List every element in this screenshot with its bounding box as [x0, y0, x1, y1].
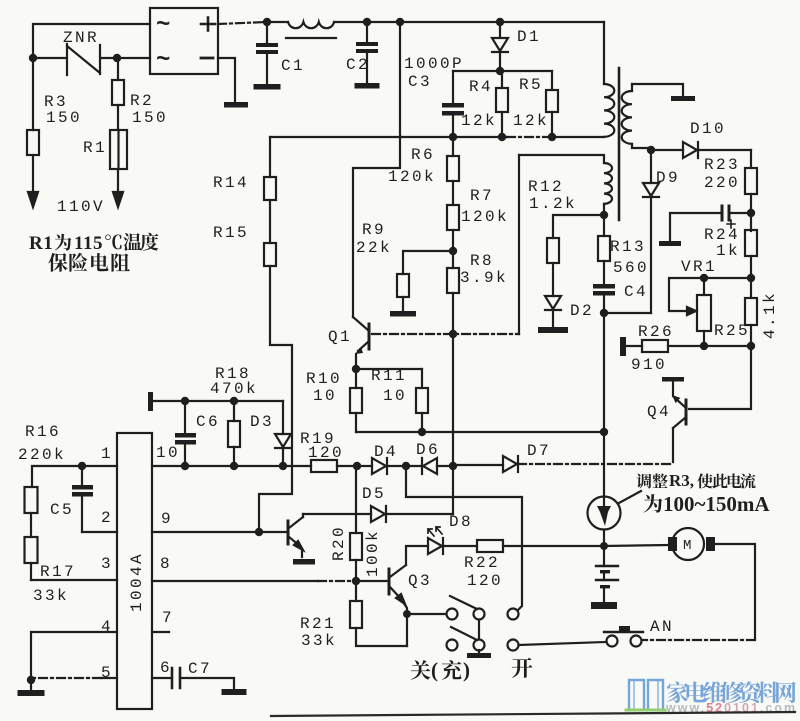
label D4 [374, 443, 398, 461]
motor M [668, 528, 715, 560]
resistor R4k1 [745, 298, 757, 346]
value 33k [33, 587, 69, 605]
svg-text:C1: C1 [281, 57, 305, 75]
label R14 [213, 174, 249, 192]
switch S1b contact L [447, 640, 458, 651]
wire node to D9 column [604, 312, 651, 314]
label bridge - [201, 57, 213, 60]
terminal bar S1b [467, 650, 491, 658]
svg-text:VR1: VR1 [681, 258, 717, 276]
pin 3 [101, 555, 113, 573]
node C1 top [263, 18, 271, 26]
value 22k [356, 239, 392, 257]
svg-text:1: 1 [101, 445, 113, 463]
label R22 [464, 554, 500, 572]
svg-text:C3: C3 [408, 73, 432, 91]
IC U1 1004A [117, 433, 152, 709]
node C6 bottom [181, 462, 189, 470]
svg-text:Q3: Q3 [408, 572, 432, 590]
wire y432 to meter branch [356, 431, 604, 433]
capacitor C4 [593, 284, 615, 313]
wire rail y137 left [270, 136, 401, 138]
battery BT1 [596, 546, 618, 602]
resistor R14 [264, 137, 276, 243]
capacitor C6 [175, 401, 196, 466]
node R18 bottom [230, 462, 238, 470]
node R23 bottom [747, 209, 755, 217]
wire Q1 base (dash-dot) [372, 333, 519, 335]
label C3 [408, 73, 432, 91]
transistor Q2 [288, 514, 303, 557]
resistor R23 [745, 150, 757, 231]
node rail-x401 [396, 18, 404, 26]
wire bridge minus out [218, 58, 235, 102]
label bridge + [201, 18, 215, 31]
label R2 [130, 92, 154, 110]
transformer secondary winding [622, 84, 695, 148]
svg-text:910: 910 [631, 356, 667, 374]
diode D2 [545, 296, 561, 327]
label R5 [519, 76, 543, 94]
svg-text:22k: 22k [356, 239, 392, 257]
label R9 [362, 221, 386, 239]
svg-text:R12: R12 [528, 178, 564, 196]
value 910 [631, 356, 667, 374]
svg-text:120: 120 [467, 572, 503, 590]
annotation R1 thermal fuse line2 [48, 253, 130, 272]
node R4 bottom [498, 133, 506, 141]
label C6 [196, 413, 220, 431]
label ZNR [63, 29, 99, 47]
ground R9 [390, 311, 416, 317]
label bridge ~ top [156, 12, 170, 39]
watermark site name [667, 681, 796, 703]
value 1000P [404, 55, 464, 73]
wire y71 [453, 70, 552, 72]
node Q2 base [255, 528, 263, 536]
value 1k [716, 242, 740, 260]
arrow to 110V line N [113, 192, 123, 207]
value 12k [461, 112, 497, 130]
label R7 [470, 187, 494, 205]
svg-text:9: 9 [161, 510, 173, 528]
svg-text:33k: 33k [33, 587, 69, 605]
watermark url [665, 701, 797, 715]
capacitor C2 [356, 22, 378, 83]
diode D6 [406, 458, 453, 474]
svg-text:C2: C2 [346, 56, 370, 74]
varistor ZNR [33, 44, 117, 75]
svg-text:3.9k: 3.9k [460, 269, 508, 287]
node battery top [600, 542, 608, 550]
value 100k (rotated) [364, 529, 382, 577]
label 开 [512, 658, 533, 678]
capacitor C7 [172, 668, 234, 689]
value 120k [461, 208, 509, 226]
leader line [619, 491, 641, 503]
ground bridge [224, 102, 248, 108]
svg-text:R13: R13 [610, 238, 646, 256]
svg-text:D4: D4 [374, 443, 398, 461]
label R10 [306, 370, 342, 388]
resistor R15 [259, 243, 292, 531]
wire emitter split [356, 368, 422, 370]
resistor R24 [745, 230, 757, 298]
resistor R5 [546, 71, 558, 137]
svg-text:R20: R20 [330, 525, 348, 561]
ground D2 [538, 327, 568, 333]
node under D1 [496, 67, 504, 75]
label R8 [470, 252, 494, 270]
value 1.2k [529, 195, 577, 213]
fuse-resistor R1 [110, 130, 127, 192]
wire pin10 rail [152, 465, 311, 467]
node Q3 emitter [403, 610, 411, 618]
svg-text:R22: R22 [464, 554, 500, 572]
svg-text:D2: D2 [570, 302, 594, 320]
value 120 [467, 572, 503, 590]
wire to R12 [553, 215, 604, 238]
svg-text:R26: R26 [638, 323, 674, 341]
label C2 [346, 56, 370, 74]
svg-text:120k: 120k [461, 208, 509, 226]
svg-text:150: 150 [46, 109, 82, 127]
switch S1a arm [450, 596, 477, 609]
svg-text:3: 3 [101, 555, 113, 573]
node R24 bottom [747, 274, 755, 282]
label D10 [690, 120, 726, 138]
svg-text:120: 120 [308, 444, 344, 462]
value 12k [513, 112, 549, 130]
node R18 top [230, 397, 238, 405]
wire meter to node [603, 530, 605, 546]
resistor R20 [350, 466, 362, 581]
node 4k1 bottom [747, 342, 755, 350]
pin 9 [161, 510, 173, 528]
node R8 bottom [449, 330, 457, 338]
node pin8-R20 [352, 577, 360, 585]
label Q3 [408, 572, 432, 590]
svg-text:5: 5 [101, 664, 113, 682]
switch S2 contact bottom [508, 640, 519, 651]
node pin4-5 gnd [27, 676, 35, 684]
svg-text:7: 7 [162, 609, 174, 627]
node R25 top [700, 274, 708, 282]
svg-text:ZNR: ZNR [63, 29, 99, 47]
annotation adjust R3 line1 [636, 471, 755, 490]
wire to bridge [117, 57, 150, 59]
label Q4 [647, 403, 671, 421]
svg-text:560: 560 [613, 259, 649, 277]
wire bridge plus out (dash-dot) [218, 22, 267, 24]
label C5 [50, 501, 74, 519]
svg-text:R5: R5 [519, 76, 543, 94]
value 150 [46, 109, 82, 127]
ground C1 [254, 84, 281, 90]
svg-text:~: ~ [156, 12, 170, 39]
label D2 [570, 302, 594, 320]
value 4.1k (rotated) [761, 291, 779, 339]
ground Q2 [293, 559, 315, 565]
wire feedback bottom [603, 204, 605, 215]
svg-text:R3,: R3, [669, 471, 694, 490]
svg-text:10: 10 [156, 444, 180, 462]
value 10 [383, 387, 407, 405]
meter circle [588, 497, 621, 530]
node meter top [600, 428, 608, 436]
transistor Q1 [353, 317, 369, 369]
svg-text:R11: R11 [371, 367, 407, 385]
svg-text:R1: R1 [29, 233, 53, 254]
capacitor C8 coupling [670, 206, 751, 241]
resistor R11 [416, 369, 428, 432]
resistor R21 [350, 581, 407, 646]
value 470k [210, 380, 258, 398]
label R21 [300, 615, 336, 633]
resistor R16 [25, 487, 38, 537]
svg-text:8: 8 [160, 555, 172, 573]
transistor Q4 [662, 377, 686, 462]
svg-text:R6: R6 [411, 146, 435, 164]
svg-text:115: 115 [74, 233, 103, 254]
node C3 bottom [449, 133, 457, 141]
wire S2 to AN [519, 642, 606, 645]
transistor Q3 [389, 546, 428, 614]
wire primary top [603, 22, 605, 84]
node C2 top [363, 18, 371, 26]
svg-text:12k: 12k [513, 112, 549, 130]
wire node to motor [604, 545, 668, 546]
label D5 [362, 485, 386, 503]
pin 7 [162, 609, 174, 627]
label VR1 [681, 258, 717, 276]
label R25 [714, 322, 750, 340]
wire D5 node to S2 [406, 466, 522, 610]
switch S2 contact top [508, 609, 519, 620]
node D4 anode [353, 462, 361, 470]
svg-text:(: ( [431, 658, 438, 682]
transformer core [618, 68, 621, 220]
label C4 [624, 283, 648, 301]
node D6-D7 [449, 462, 457, 470]
node C4 bottom [600, 309, 608, 317]
svg-text:R9: R9 [362, 221, 386, 239]
svg-text:Q4: Q4 [647, 403, 671, 421]
wire pin9 [152, 531, 288, 533]
wire base Q3 [356, 580, 389, 582]
label R20 (rotated) [330, 525, 348, 561]
wire VR1 wiper feed [669, 278, 751, 311]
value 560 [613, 259, 649, 277]
arrow VR1 wiper [687, 307, 696, 315]
switch S1b contact R [474, 640, 485, 651]
diode D7 [453, 456, 673, 472]
label D1 [517, 28, 541, 46]
svg-text:2: 2 [101, 509, 113, 527]
svg-text:): ) [463, 658, 470, 682]
wire top rail left [267, 21, 288, 23]
label R11 [371, 367, 407, 385]
svg-text:120k: 120k [388, 168, 436, 186]
node feedback out [600, 211, 608, 219]
value 220 [704, 174, 740, 192]
label D3 [250, 413, 274, 431]
value 120k [388, 168, 436, 186]
wire pin5 (dash-dot) [34, 677, 117, 679]
filter choke L1 [286, 22, 336, 38]
wire down-left to R21 [406, 614, 408, 646]
diode D3 [275, 401, 291, 466]
label C1 [281, 57, 305, 75]
label R19 [300, 430, 336, 448]
wire pin2 [82, 531, 117, 533]
resistor R3 [27, 58, 39, 194]
diode D5 [303, 506, 453, 522]
svg-text:1.2k: 1.2k [529, 195, 577, 213]
pin 5 [101, 664, 113, 682]
pin 8 [160, 555, 172, 573]
resistor R8 [447, 268, 459, 514]
svg-text:R17: R17 [40, 563, 76, 581]
node R25 bottom [700, 342, 708, 350]
label R17 [40, 563, 76, 581]
svg-text:D6: D6 [416, 441, 440, 459]
resistor R26 [620, 337, 668, 356]
label R15 [213, 224, 249, 242]
label R12 [528, 178, 564, 196]
diode D1 [492, 22, 508, 71]
svg-text:220k: 220k [18, 446, 66, 464]
wire pin6 [152, 677, 171, 679]
svg-text:110V: 110V [57, 198, 105, 216]
capacitor C1 [256, 22, 278, 84]
edge of next figure [271, 712, 795, 716]
label R26 [638, 323, 674, 341]
LED D8 [428, 527, 443, 554]
svg-text:R21: R21 [300, 615, 336, 633]
switch S1a contact R [474, 609, 485, 620]
bridge rectifier [150, 8, 218, 74]
node AC-1 [29, 54, 37, 62]
ground C7 [222, 689, 247, 695]
label 110V [57, 198, 105, 216]
svg-text:6: 6 [160, 659, 172, 677]
svg-text:Q1: Q1 [328, 328, 352, 346]
value 10 [313, 387, 337, 405]
resistor R19 [311, 460, 357, 472]
svg-text:220: 220 [704, 174, 740, 192]
svg-text:D9: D9 [656, 169, 680, 187]
label R18 [215, 365, 251, 383]
pushbutton AN [604, 626, 643, 647]
svg-text:C6: C6 [196, 413, 220, 431]
label R23 [704, 156, 740, 174]
label R24 [704, 226, 740, 244]
label C7 [188, 660, 212, 678]
transformer primary winding [604, 84, 614, 137]
resistor R2 [112, 58, 124, 128]
wire feedback top [519, 155, 604, 163]
label D7 [527, 442, 551, 460]
resistor R18 [228, 401, 240, 466]
svg-text:R1: R1 [83, 139, 107, 157]
node AC-2 [113, 54, 121, 62]
svg-text:R8: R8 [470, 252, 494, 270]
value 220k [18, 446, 66, 464]
node R7-R8 [449, 247, 457, 255]
capacitor C5 [72, 466, 93, 532]
wire x519 down [518, 155, 520, 334]
resistor R4 [496, 71, 508, 137]
resistor R7 [447, 205, 459, 268]
svg-text:4.1k: 4.1k [761, 291, 779, 339]
svg-text:C5: C5 [50, 501, 74, 519]
svg-text:12k: 12k [461, 112, 497, 130]
wire top rail right [334, 21, 604, 23]
svg-text:D3: D3 [250, 413, 274, 431]
svg-text:~: ~ [156, 47, 170, 74]
pin 1 [101, 445, 113, 463]
wire pin3 [31, 579, 117, 581]
value 33k [301, 632, 337, 650]
terminal bar 470k rail [148, 392, 153, 411]
label D6 [416, 441, 440, 459]
label R16 [25, 423, 61, 441]
svg-text:C7: C7 [188, 660, 212, 678]
label bridge ~ bottom [156, 47, 170, 74]
resistor R9 [397, 251, 453, 311]
svg-text:R23: R23 [704, 156, 740, 174]
ground C8 [659, 241, 681, 246]
value 150 [132, 109, 168, 127]
label D8 [449, 513, 473, 531]
svg-text:R4: R4 [469, 78, 493, 96]
label AN [650, 618, 674, 636]
node D4-D6 [402, 462, 410, 470]
svg-text:4: 4 [101, 618, 113, 636]
label R6 [411, 146, 435, 164]
label R13 [610, 238, 646, 256]
svg-text:R7: R7 [470, 187, 494, 205]
wire to Q4 base [689, 346, 751, 409]
svg-text:1000P: 1000P [404, 55, 464, 73]
svg-text:D10: D10 [690, 120, 726, 138]
wire pin8 rail [152, 580, 356, 582]
transformer feedback winding [604, 163, 612, 204]
svg-text:R10: R10 [306, 370, 342, 388]
svg-text:M: M [683, 538, 691, 554]
svg-text:470k: 470k [210, 380, 258, 398]
resistor R10 [350, 369, 362, 432]
node secondary out [647, 146, 655, 154]
label 关(充) [411, 658, 470, 682]
value 3.9k [460, 269, 508, 287]
svg-text:D1: D1 [517, 28, 541, 46]
wire pin7 stub [152, 631, 169, 633]
label D9 [656, 169, 680, 187]
label R1 [83, 139, 107, 157]
wire x401 down to Q1 [353, 22, 400, 317]
label Q1 [328, 328, 352, 346]
node D3 bottom [279, 462, 287, 470]
diode D9 [643, 150, 659, 313]
wire pin1 [32, 466, 117, 487]
svg-text:R16: R16 [25, 423, 61, 441]
wire rail y137 [401, 136, 604, 138]
pin 4 [101, 618, 113, 636]
pin 2 [101, 509, 113, 527]
svg-text:R2: R2 [130, 92, 154, 110]
